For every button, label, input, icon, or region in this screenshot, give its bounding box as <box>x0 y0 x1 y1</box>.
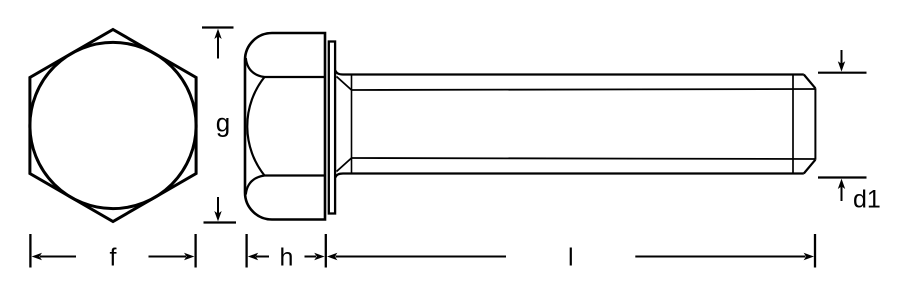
bolt head side view: top facet line <box>246 58 325 77</box>
thread runout top diagonal <box>337 77 352 91</box>
dimension h: left tick <box>245 234 247 268</box>
dimension l: left arrow <box>336 256 507 258</box>
thread runout bottom diagonal <box>337 158 352 172</box>
shank: bottom outer line with fillet <box>336 174 804 178</box>
thread: bottom root line <box>352 158 816 159</box>
thread runout vertical <box>351 75 353 174</box>
bolt head side view: outline <box>245 33 325 220</box>
bolt head side view: bottom facet line <box>246 176 325 195</box>
bolt head side view: washer face strip <box>329 42 335 214</box>
dimension h: left arrow <box>256 256 269 258</box>
dimension d1: bottom bar <box>818 176 867 178</box>
end chamfer top diagonal <box>804 75 816 89</box>
svg-text:d1: d1 <box>853 186 881 214</box>
end face vertical <box>814 88 816 159</box>
svg-text:g: g <box>216 108 230 138</box>
hex head front view: hexagon <box>30 30 196 222</box>
dimension l: right tick <box>814 234 816 268</box>
svg-text:l: l <box>568 244 574 272</box>
hex head front view: inscribed circle <box>30 42 196 208</box>
shank: top outer line with fillet <box>336 71 804 75</box>
dimension d1: top bar <box>818 72 867 74</box>
bolt head side view: middle facet chamfer arc <box>247 77 264 176</box>
dimension l: right segment with arrow <box>635 256 805 258</box>
dimension f: left arrow <box>40 256 76 258</box>
dimension d1: bottom arrow (up) <box>841 187 843 202</box>
svg-text:f: f <box>110 244 117 272</box>
dimension f: right arrow <box>149 256 187 258</box>
thread: top root line <box>352 89 816 90</box>
dimension g: top arrow (up) <box>217 36 219 59</box>
dimension h: right arrow <box>305 256 317 258</box>
dimension h: right tick <box>325 234 327 268</box>
dimension g: top bar <box>202 26 234 28</box>
end chamfer start vertical <box>792 75 794 174</box>
dimension d1: top arrow (down) <box>841 50 843 64</box>
end chamfer bottom diagonal <box>804 160 816 174</box>
svg-text:h: h <box>280 244 294 272</box>
dimension f: right tick <box>194 234 196 268</box>
dimension g: bottom arrow (down) <box>217 197 219 214</box>
dimension f: left tick <box>29 234 31 268</box>
dimension g: bottom bar <box>204 221 237 223</box>
